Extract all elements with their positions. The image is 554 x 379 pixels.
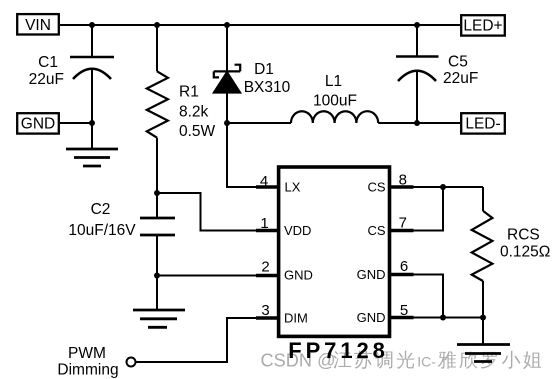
svg-text:LED-: LED- — [465, 116, 500, 133]
svg-text:GND: GND — [357, 267, 386, 282]
svg-text:8: 8 — [399, 172, 407, 189]
svg-text:2: 2 — [261, 259, 269, 276]
pin 6 GND stub — [357, 258, 414, 282]
wire pin6 to GND net — [414, 275, 444, 318]
wire top rail VIN to LED+ — [60, 24, 460, 26]
port LED- — [461, 113, 505, 133]
svg-text:C2: C2 — [91, 201, 111, 218]
svg-text:0.5W: 0.5W — [179, 123, 216, 140]
node R1/C2/VDD junction — [154, 190, 160, 196]
capacitor C5 — [396, 25, 478, 123]
op IC U1 FP7128 body — [279, 167, 390, 363]
port LED+ — [461, 15, 505, 35]
node VIN/C1 junction — [89, 22, 95, 28]
svg-text:10uF/16V: 10uF/16V — [68, 222, 136, 239]
svg-text:Dimming: Dimming — [57, 362, 118, 379]
capacitor C1 — [29, 25, 114, 149]
svg-text:22uF: 22uF — [29, 71, 64, 88]
node D1/LX junction — [224, 120, 230, 126]
svg-text:22uF: 22uF — [443, 70, 478, 87]
ground under C2 — [133, 310, 185, 327]
svg-text:LX: LX — [285, 180, 301, 195]
svg-text:1: 1 — [260, 215, 268, 232]
svg-text:6: 6 — [400, 258, 408, 275]
pin 5 GND stub — [357, 302, 414, 325]
pin 8 CS stub — [367, 172, 413, 195]
svg-text:GND: GND — [357, 310, 386, 325]
svg-text:CS: CS — [367, 223, 385, 238]
svg-text:CS: CS — [367, 180, 385, 195]
node pin6/pin5 junction — [440, 315, 446, 321]
watermark CSDN — [261, 351, 542, 371]
pin 2 GND stub — [256, 259, 313, 283]
pin 1 VDD stub — [256, 215, 311, 238]
svg-text:3: 3 — [261, 302, 269, 319]
wire VDD net R1/C2 to pin1 — [157, 193, 257, 231]
svg-text:BX310: BX310 — [244, 79, 291, 96]
svg-text:R1: R1 — [179, 84, 199, 101]
svg-text:4: 4 — [260, 173, 268, 190]
ground under RCS — [457, 345, 510, 362]
ground under C1 — [66, 149, 118, 166]
svg-text:L1: L1 — [325, 73, 342, 90]
node C2/pin2 junction — [154, 273, 160, 279]
svg-text:DIM: DIM — [284, 311, 308, 326]
wire PWM to pin3 DIM — [136, 318, 258, 362]
pin 3 DIM stub — [256, 302, 308, 326]
terminal PWM Dimming — [57, 345, 135, 379]
node RCS bottom junction — [480, 315, 486, 321]
wire pin5 GND net — [414, 317, 484, 319]
svg-text:7: 7 — [399, 215, 407, 232]
wire LX net D1 to pin4 — [227, 123, 257, 187]
capacitor C2 — [68, 193, 175, 276]
inductor L1 — [291, 73, 378, 123]
pin 7 CS stub — [367, 215, 413, 239]
svg-text:100uF: 100uF — [313, 93, 357, 110]
diode D1 schottky — [213, 25, 290, 123]
port GND — [17, 113, 59, 133]
svg-text:VDD: VDD — [284, 223, 311, 238]
wire pin7 to CS net — [414, 187, 444, 231]
wire RCS to ground — [482, 318, 484, 345]
svg-text:C5: C5 — [448, 54, 468, 71]
pin 4 LX stub — [256, 173, 301, 195]
svg-text:RCS: RCS — [507, 227, 540, 244]
svg-text:GND: GND — [284, 268, 313, 283]
svg-text:0.125Ω: 0.125Ω — [500, 244, 550, 261]
port VIN — [17, 14, 59, 34]
node CS junction — [440, 184, 446, 190]
wire GND box to C1 — [60, 122, 92, 124]
svg-text:D1: D1 — [254, 61, 274, 78]
svg-text:PWM: PWM — [68, 345, 106, 362]
node D1 top junction — [224, 22, 230, 28]
node R1 top junction — [154, 22, 160, 28]
wire pin8 CS net to RCS — [414, 186, 484, 188]
svg-text:GND: GND — [21, 116, 55, 133]
resistor RCS — [472, 187, 551, 318]
wire C2 to ground — [156, 276, 158, 311]
node C5 bottom junction — [414, 120, 420, 126]
svg-text:C1: C1 — [38, 54, 58, 71]
node C5 top junction — [414, 22, 420, 28]
wire LX rail right segment to LED- — [378, 122, 460, 124]
node GND/C1 junction — [89, 120, 95, 126]
svg-text:FP7128: FP7128 — [288, 338, 388, 363]
wire LX rail left segment — [227, 122, 291, 124]
svg-text:8.2k: 8.2k — [179, 104, 209, 121]
resistor R1 — [147, 25, 216, 193]
svg-text:IC-: IC- — [417, 354, 436, 370]
svg-text:VIN: VIN — [25, 17, 51, 34]
svg-text:LED+: LED+ — [463, 18, 502, 35]
wire GND net C2 to pin2 — [157, 275, 257, 277]
svg-text:5: 5 — [400, 302, 408, 319]
